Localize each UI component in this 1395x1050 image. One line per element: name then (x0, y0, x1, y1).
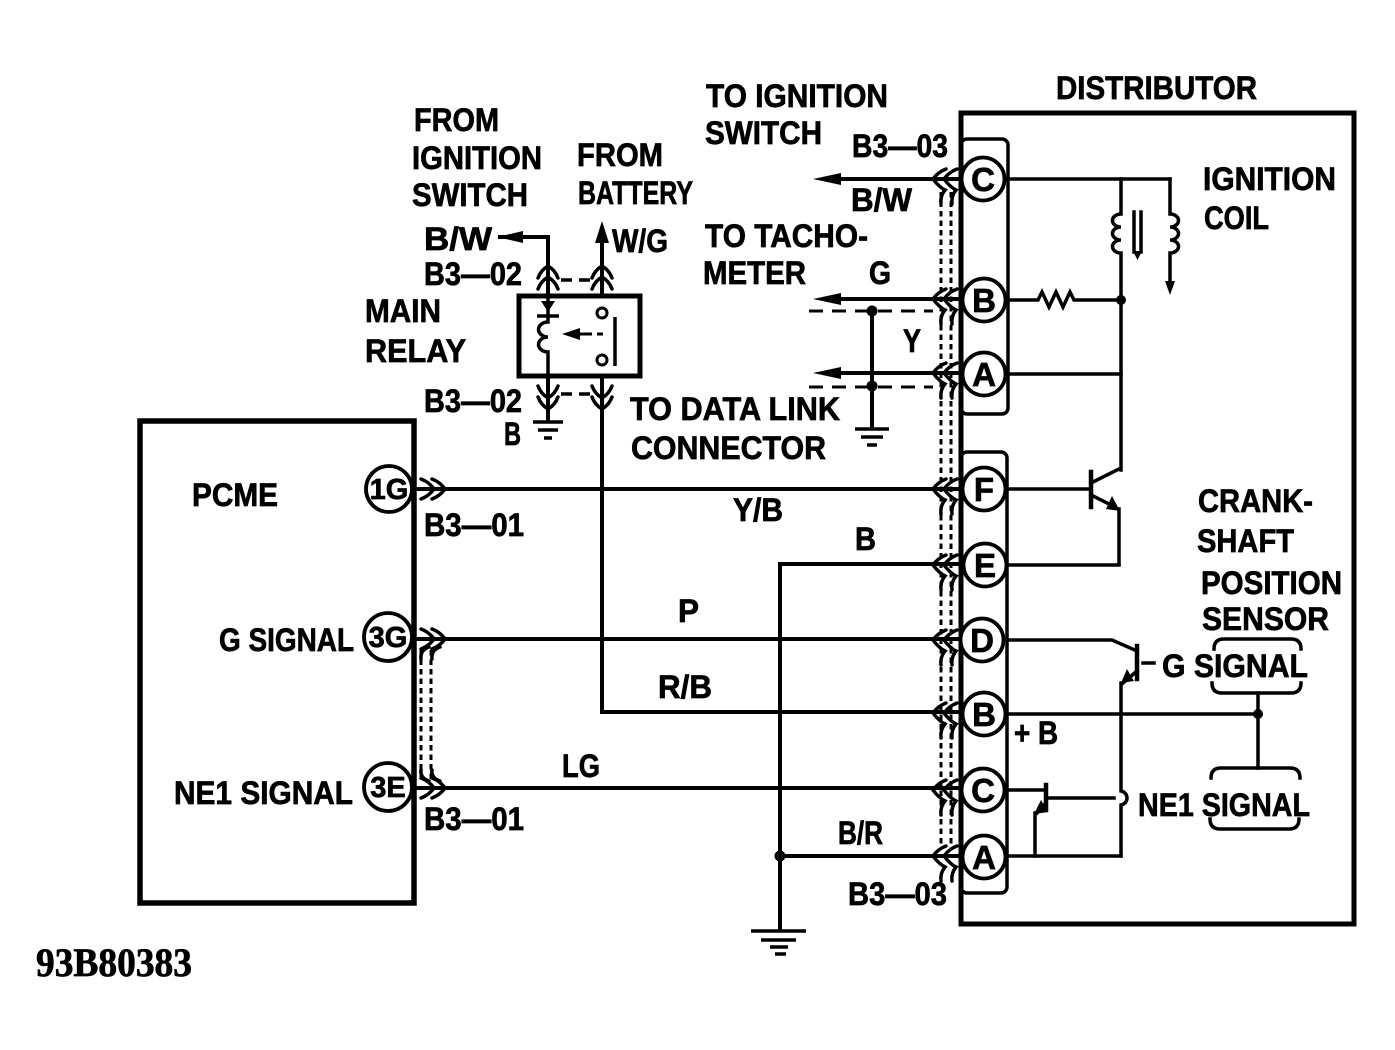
svg-text:C: C (971, 161, 995, 198)
svg-text:D: D (970, 622, 994, 659)
svg-text:Y: Y (903, 323, 921, 359)
svg-text:B3—02: B3—02 (424, 383, 522, 419)
svg-text:F: F (974, 471, 994, 508)
svg-text:G SIGNAL: G SIGNAL (219, 622, 354, 658)
svg-text:BATTERY: BATTERY (578, 175, 693, 211)
svg-text:W/G: W/G (612, 223, 668, 259)
svg-text:B/W: B/W (424, 221, 493, 257)
svg-text:Y/B: Y/B (733, 492, 783, 528)
svg-text:3G: 3G (369, 622, 408, 654)
svg-text:CONNECTOR: CONNECTOR (631, 430, 826, 466)
svg-text:B: B (972, 282, 996, 319)
svg-text:SWITCH: SWITCH (705, 115, 822, 151)
svg-text:METER: METER (703, 255, 806, 291)
svg-text:B3—03: B3—03 (848, 876, 947, 912)
svg-text:A: A (972, 356, 996, 393)
svg-text:CRANK-: CRANK- (1198, 483, 1313, 519)
svg-text:IGNITION: IGNITION (1203, 161, 1336, 197)
svg-text:3E: 3E (370, 772, 405, 804)
svg-text:IGNITION: IGNITION (412, 140, 542, 176)
svg-text:NE1 SIGNAL: NE1 SIGNAL (1138, 787, 1310, 823)
svg-text:SHAFT: SHAFT (1197, 523, 1294, 559)
svg-text:93B80383: 93B80383 (36, 940, 192, 985)
svg-text:B3—01: B3—01 (424, 507, 524, 543)
svg-text:B: B (855, 521, 876, 557)
svg-text:B3—02: B3—02 (424, 256, 522, 292)
svg-text:C: C (971, 772, 995, 809)
svg-text:SENSOR: SENSOR (1202, 601, 1329, 637)
svg-text:A: A (972, 839, 996, 876)
svg-text:PCME: PCME (192, 477, 278, 513)
svg-text:NE1 SIGNAL: NE1 SIGNAL (174, 775, 353, 811)
svg-text:E: E (974, 547, 996, 584)
svg-text:B3—03: B3—03 (852, 128, 948, 164)
svg-text:B/R: B/R (838, 815, 883, 851)
svg-text:TO IGNITION: TO IGNITION (706, 78, 888, 114)
svg-text:B: B (972, 696, 996, 733)
svg-text:MAIN: MAIN (365, 293, 441, 329)
svg-text:LG: LG (562, 748, 600, 784)
svg-text:POSITION: POSITION (1201, 565, 1342, 601)
svg-text:TO DATA LINK: TO DATA LINK (630, 391, 840, 427)
svg-text:B/W: B/W (851, 182, 913, 218)
svg-text:DISTRIBUTOR: DISTRIBUTOR (1056, 70, 1257, 106)
svg-text:R/B: R/B (658, 669, 712, 705)
svg-text:B3—01: B3—01 (424, 801, 524, 837)
svg-text:RELAY: RELAY (365, 333, 466, 369)
svg-text:G: G (869, 255, 891, 291)
svg-text:+ B: + B (1014, 715, 1058, 751)
svg-text:SWITCH: SWITCH (412, 177, 528, 213)
svg-text:COIL: COIL (1204, 200, 1269, 236)
svg-text:TO TACHO-: TO TACHO- (705, 218, 868, 254)
svg-text:FROM: FROM (414, 102, 499, 138)
svg-text:FROM: FROM (577, 137, 663, 173)
svg-text:B: B (504, 416, 521, 452)
svg-text:G SIGNAL: G SIGNAL (1162, 648, 1308, 684)
svg-text:1G: 1G (370, 474, 409, 506)
svg-text:P: P (678, 593, 699, 629)
